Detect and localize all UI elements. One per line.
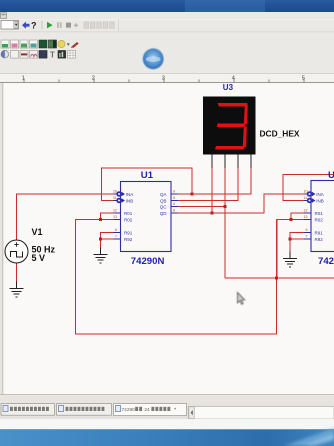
wire V1 top to INA of U1 — [17, 194, 114, 240]
wire reset line horizontal — [225, 277, 334, 279]
wire U2 R02 row to reset vertical — [277, 220, 304, 279]
svg-text:7: 7 — [306, 235, 308, 239]
wire U1 QA feedback to INB (top loop) — [102, 168, 193, 201]
display pins — [212, 155, 251, 169]
node U1 R9 junction — [99, 238, 102, 241]
svg-text:74290: 74290 — [122, 407, 136, 413]
svg-text:R91: R91 — [124, 231, 133, 236]
wire U1 QA to display pin4 — [192, 168, 251, 194]
wire display pin1 down to QD row — [211, 168, 213, 213]
node U2 R0 junction — [290, 218, 293, 221]
node U2 R9 junction — [289, 238, 292, 241]
node U1 R0 junction — [99, 218, 102, 221]
seven-segment display U3 DCD_HEX — [203, 83, 256, 168]
svg-text:R02: R02 — [315, 218, 324, 223]
svg-text:QB: QB — [160, 199, 167, 204]
svg-text:13: 13 — [304, 215, 308, 219]
svg-text:11: 11 — [113, 196, 117, 200]
ground below U1 R9 — [94, 248, 108, 263]
svg-text:5 V: 5 V — [32, 253, 46, 263]
status strip — [0, 419, 334, 429]
wire U1 R92 row to ground — [101, 239, 114, 254]
bottom scrollbar strip — [0, 394, 334, 403]
toolbar row 1 — [1, 20, 119, 32]
wire U2 R91 stub to junction — [290, 233, 304, 240]
clock wedge INA U2 — [307, 191, 316, 196]
clock wedge INA U1 — [116, 191, 125, 196]
U2 pin stubs — [304, 194, 311, 239]
ground below U2 R9 — [283, 252, 297, 267]
svg-text:INB: INB — [316, 199, 324, 204]
segment bottom — [215, 146, 245, 150]
svg-text:U3: U3 — [223, 83, 234, 92]
ruler — [0, 73, 334, 83]
svg-text:9: 9 — [173, 190, 175, 194]
svg-text:12: 12 — [113, 209, 117, 213]
svg-text:DCD_HEX: DCD_HEX — [260, 128, 300, 138]
ground below V1 — [10, 282, 24, 297]
svg-text:13: 13 — [113, 215, 117, 219]
svg-text:INB: INB — [126, 199, 134, 204]
svg-text:10: 10 — [113, 190, 117, 194]
toolbar icon row 2 — [1, 40, 79, 48]
wire display pin2 down through QC to reset line — [224, 168, 226, 278]
svg-text:INA: INA — [126, 192, 134, 197]
svg-text:8: 8 — [173, 209, 175, 213]
wire U2 R01 stub to junction — [291, 213, 304, 220]
node QD junction — [211, 212, 214, 215]
segment top — [218, 103, 248, 107]
svg-text:R92: R92 — [124, 237, 133, 242]
svg-text:R91: R91 — [315, 231, 324, 236]
svg-text:INA: INA — [316, 192, 324, 197]
U1 pin names INA INB R01 R02 R91 R92 QA QB QC QD — [124, 192, 167, 242]
segment B top-right — [244, 104, 248, 125]
svg-text:R02: R02 — [124, 218, 133, 223]
svg-text:1: 1 — [22, 76, 25, 82]
svg-text:3: 3 — [162, 76, 165, 82]
wire U1 QC to reset node — [178, 206, 225, 208]
clock wedge INB U1 — [116, 198, 125, 203]
vertical ruler sliver — [0, 83, 3, 394]
wire U1 R01 stub to junction — [101, 213, 114, 220]
wire U1 QD to U2 INA (cascade) — [178, 194, 304, 213]
svg-text:T: T — [50, 51, 55, 60]
wire U1 R02 row with left reset loop — [76, 220, 277, 335]
segment middle — [217, 124, 246, 128]
node QC junction — [224, 205, 227, 208]
svg-text:4: 4 — [232, 76, 235, 82]
svg-text:11: 11 — [304, 196, 308, 200]
svg-text:?: ? — [31, 20, 37, 30]
op IC U1 74290N — [113, 182, 178, 252]
svg-text:24: 24 — [144, 407, 150, 413]
node QA junction U1 — [191, 193, 194, 196]
wire U2 QA feedback top — [283, 175, 334, 201]
svg-text:74290N: 74290N — [131, 256, 165, 267]
node reset line junction — [275, 277, 278, 280]
svg-text:6: 6 — [306, 228, 308, 232]
canvas area — [4, 83, 334, 394]
svg-text:U2: U2 — [328, 170, 334, 181]
svg-text:R01: R01 — [315, 211, 324, 216]
svg-text:R92: R92 — [315, 237, 324, 242]
svg-text:7: 7 — [115, 235, 117, 239]
svg-text:12: 12 — [304, 209, 308, 213]
wire V1 bottom to ground — [16, 263, 18, 288]
svg-text:6: 6 — [115, 228, 117, 232]
bottom taskbar / wallpaper strip — [0, 428, 334, 446]
watermark logo circle — [143, 48, 164, 69]
svg-text:5: 5 — [173, 196, 175, 200]
svg-text:QD: QD — [160, 211, 168, 216]
svg-text:5: 5 — [302, 76, 305, 82]
mouse cursor — [238, 293, 245, 305]
svg-text:V1: V1 — [32, 227, 43, 237]
voltage source V1 — [5, 240, 28, 263]
U2 pin names INA INB R01 R02 R91 R92 — [315, 192, 324, 242]
svg-text:QC: QC — [160, 205, 168, 210]
segment C bottom-right — [243, 126, 247, 148]
svg-text:74290N: 74290N — [318, 256, 334, 267]
wire U1 R91 stub to junction — [101, 233, 114, 240]
svg-text:QA: QA — [160, 192, 167, 197]
svg-text:R01: R01 — [124, 211, 133, 216]
U2 pin numbers 10 11 12 13 6 7 — [304, 190, 308, 239]
wire U2 R92 row to ground — [290, 239, 304, 258]
clock wedge INB U2 — [307, 198, 316, 203]
svg-text:10: 10 — [304, 190, 308, 194]
svg-text:U1: U1 — [141, 170, 154, 181]
menu row small document icon — [1, 13, 7, 19]
U1 pin stubs — [114, 194, 179, 239]
U1 pin numbers 10 11 12 13 6 7 9 5 4 8 — [113, 190, 175, 239]
svg-text:4: 4 — [173, 202, 175, 206]
svg-text:2: 2 — [92, 76, 95, 82]
wire U1 QB to display pin3 — [178, 168, 238, 201]
toolbar icon row 3 — [1, 50, 76, 59]
IC U2 74290N (partially visible) — [304, 181, 334, 252]
sheet tabs — [0, 403, 334, 419]
